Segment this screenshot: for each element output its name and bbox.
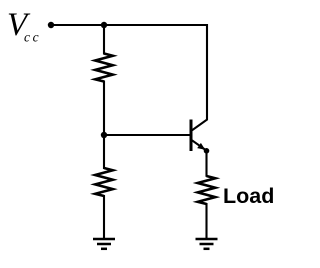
transistor Q1 emitter arrow bbox=[197, 143, 205, 150]
transistor Q1 base bar bbox=[190, 120, 193, 152]
svg-text:Load: Load bbox=[223, 184, 274, 208]
node Vcc terminal dot bbox=[48, 22, 54, 28]
wire load to ground bbox=[205, 203, 207, 240]
transistor Q1 emitter bbox=[192, 140, 207, 150]
ground right bbox=[196, 239, 218, 249]
wire left branch upper bbox=[103, 25, 105, 55]
wire emitter to load bbox=[205, 151, 207, 177]
wire base bbox=[104, 134, 190, 136]
ground left bbox=[93, 239, 115, 249]
svg-text:cc: cc bbox=[24, 30, 41, 45]
resistor Load bbox=[198, 176, 216, 204]
label Vcc bbox=[7, 7, 41, 45]
wire collector drop from rail bbox=[192, 24, 207, 130]
wire between R1 and base node bbox=[103, 81, 105, 170]
wire R2 to ground bbox=[103, 195, 105, 240]
resistor R1 (upper divider) bbox=[95, 54, 113, 82]
node emitter dot bbox=[204, 148, 210, 154]
wire Vcc rail (top) bbox=[50, 24, 208, 26]
node top junction dot bbox=[101, 22, 107, 28]
node base junction dot bbox=[101, 132, 107, 138]
resistor R2 (lower divider) bbox=[95, 168, 113, 196]
